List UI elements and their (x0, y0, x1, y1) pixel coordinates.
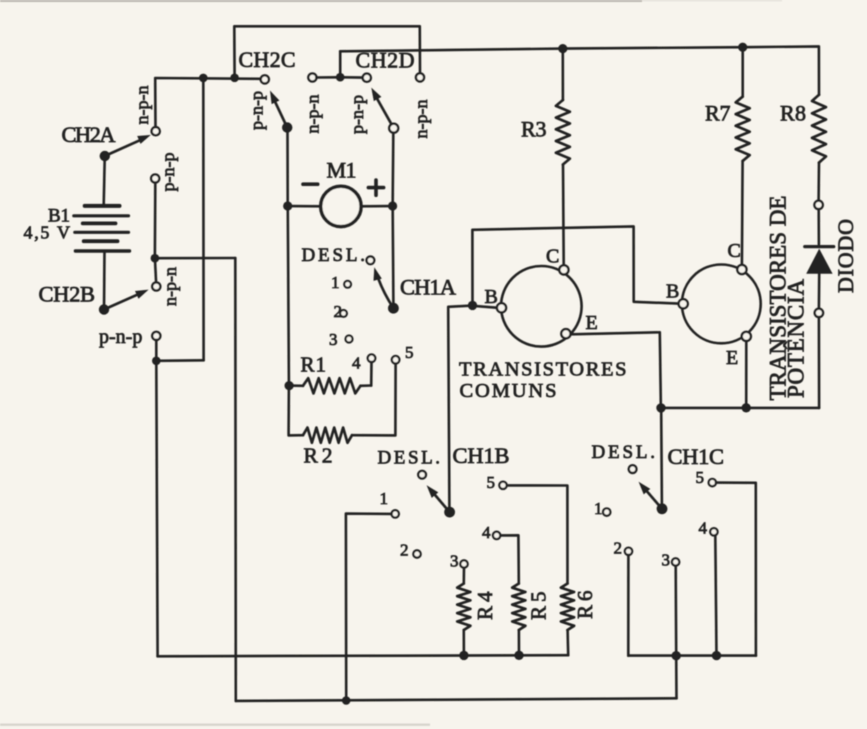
svg-text:4: 4 (699, 519, 708, 538)
pin B comuns (497, 303, 506, 312)
wire CH2D feed up to top bus (339, 51, 342, 77)
svg-text:E: E (586, 312, 598, 334)
wire bus N vertical x235 (234, 258, 237, 701)
switch CH1B pivot (444, 507, 455, 518)
svg-text:1: 1 (380, 489, 389, 508)
label 2 CH1C (614, 539, 623, 558)
wire E bus to CH1C pivot (660, 412, 663, 504)
label 5 CH1C (696, 468, 705, 487)
svg-text:3: 3 (329, 330, 338, 349)
svg-text:5: 5 (405, 343, 414, 362)
node R1 left (285, 381, 294, 390)
svg-text:CH2A: CH2A (62, 122, 117, 147)
switch CH1C contact 4 (710, 528, 717, 535)
switch CH1B arm (427, 485, 450, 512)
svg-text:3: 3 (662, 551, 671, 570)
battery B1 (74, 206, 130, 251)
switch CH2D n-p-n contact left (308, 73, 316, 81)
pin C potencia (737, 265, 746, 274)
node meter plus (388, 201, 397, 210)
svg-text:R5: R5 (527, 592, 551, 621)
label CH2D (356, 48, 415, 73)
svg-text:R6: R6 (573, 591, 597, 620)
switch CH2A p-n-p contact (151, 174, 159, 182)
resistor R1 (289, 378, 371, 393)
switch CH1C pivot (657, 503, 668, 514)
svg-text:R7: R7 (705, 101, 731, 126)
label 4 CH1A (352, 354, 361, 373)
svg-text:3: 3 (450, 551, 459, 570)
switch CH1B contact 3 (460, 560, 467, 567)
switch CH2C arm (270, 91, 287, 128)
resistor R7 (736, 47, 750, 264)
switch CH1B contact 2 (413, 550, 420, 557)
label 3 CH1A (329, 330, 338, 349)
label C potencia (728, 240, 741, 262)
svg-text:C: C (728, 240, 741, 262)
wire contact5 to R6 (507, 485, 568, 583)
wire bottom bus y701 (236, 698, 677, 701)
battery B1 lead top wire (104, 159, 105, 206)
wire diode top lead (817, 209, 820, 244)
switch CH2B n-p-n contact (152, 282, 160, 290)
switch CH1A pivot (388, 303, 399, 314)
switch CH2D n-p-n contact right (416, 73, 424, 81)
label B1 (48, 205, 70, 226)
wire contact3 CH1C to bus (674, 566, 677, 656)
switch CH1B contact 5 (499, 482, 506, 489)
svg-text:n-p-n: n-p-n (160, 267, 180, 306)
transistor socket comuns circle (501, 266, 582, 347)
label E comuns (586, 312, 598, 334)
wire meter column to R2 (289, 386, 303, 436)
node E bus right-transistor (742, 403, 751, 412)
wire main top bus (340, 46, 819, 94)
switch CH1B contact 4 (493, 532, 500, 539)
wire CH2B pnp contact to junction (155, 340, 158, 356)
diode anode triangle (806, 249, 832, 274)
wire CH2D pivot down to meter plus (391, 133, 394, 202)
switch CH1A DESL contact (367, 256, 375, 264)
svg-text:COMUNS: COMUNS (460, 380, 557, 402)
wire R1 to contact 4 (370, 362, 373, 385)
label 5 CH1A (405, 343, 414, 362)
label R8 (780, 101, 806, 126)
resistor R6 (561, 584, 574, 656)
label p-n-p CH2C (246, 91, 266, 130)
switch CH1C contact 1 (603, 508, 610, 515)
wire contact5 CH1C to bus (716, 483, 756, 656)
wire junction to CH2D pnp (344, 76, 363, 79)
label DIODO (833, 219, 858, 293)
wire bottom bus left y656 (158, 655, 569, 656)
label 3 CH1B (450, 551, 459, 570)
wire contact4 CH1C to bus (715, 535, 716, 655)
transistor socket potencia circle (682, 265, 761, 344)
svg-text:B: B (666, 281, 679, 303)
label E potencia (726, 347, 738, 369)
label CH1B (453, 443, 510, 468)
node junction CH2D feed (336, 73, 345, 82)
svg-text:CH1B: CH1B (453, 443, 510, 468)
label CH2B (39, 281, 96, 306)
node junction above CH2B npn (151, 254, 160, 263)
label 4 CH1B (482, 523, 491, 542)
switch CH2C pivot (282, 122, 292, 132)
battery B1 lead bottom wire (103, 251, 106, 310)
resistor R2 (303, 428, 352, 443)
node meter minus (283, 201, 292, 210)
label 2 CH1A (334, 302, 343, 321)
wire E potencia down (745, 341, 748, 403)
switch CH1C DESL contact (629, 465, 637, 473)
svg-text:p-n-p: p-n-p (246, 91, 266, 130)
wire vertical x203 (top row to pnp net) (202, 78, 205, 360)
node B junction left (468, 301, 477, 310)
wire E bus horizontal (661, 407, 819, 410)
switch CH2D arm (371, 88, 393, 129)
label 1 CH1A (331, 273, 340, 292)
switch CH2A n-p-n contact (152, 127, 160, 135)
switch CH1C contact 3 (672, 558, 679, 565)
label R7 (705, 101, 731, 126)
label 2 CH1B (400, 541, 409, 560)
wire pnp junction to x203 riser (156, 359, 203, 362)
node junction contact4 bus (712, 651, 721, 660)
switch CH2D p-n-p contact (363, 74, 371, 82)
svg-text:DESL.: DESL. (592, 442, 656, 463)
label TRANSISTORES (459, 359, 627, 381)
svg-text:E: E (726, 347, 738, 369)
svg-text:p-n-p: p-n-p (99, 326, 142, 348)
svg-text:CH2C: CH2C (239, 47, 296, 72)
node R3 top (558, 44, 567, 53)
wire CH2C pivot down to meter minus (286, 132, 289, 202)
svg-text:5: 5 (696, 468, 705, 487)
wire bottom bus right (628, 654, 756, 657)
node junction CH1B pos1 bottom (342, 696, 351, 705)
wire junction right to bus N (155, 257, 235, 260)
label DESL CH1C (592, 442, 656, 463)
wire B junction to B contact (473, 306, 497, 308)
label R5 (527, 592, 551, 621)
node R7 top (738, 43, 747, 52)
terminal circle diode bottom (815, 309, 823, 317)
label C comuns (546, 245, 559, 267)
wire junction to CH2B npn contact (155, 258, 156, 282)
pin E comuns (561, 329, 570, 338)
node junction x234 on top row (230, 74, 239, 83)
resistor R4 (457, 584, 470, 656)
resistor R5 (512, 584, 525, 656)
switch CH1A contact 5 (392, 356, 400, 364)
wire diode to E bus (818, 317, 821, 408)
svg-text:2: 2 (614, 539, 623, 558)
scan edge bottom (0, 724, 430, 726)
svg-text:n-p-n: n-p-n (132, 86, 152, 125)
scan edge top (0, 0, 782, 2)
switch CH1A arm (374, 267, 394, 308)
wire E comuns to E bus (571, 332, 661, 403)
svg-text:R2: R2 (304, 443, 333, 467)
switch CH2D pivot contact (389, 124, 398, 133)
wire B junction to CH1B (448, 306, 472, 508)
pin C comuns (559, 265, 568, 274)
svg-text:DESL.: DESL. (378, 447, 441, 468)
wire R2 to contact 5 (352, 364, 396, 436)
label 5 CH1B (487, 473, 496, 492)
label p-n-p CH2A (158, 153, 178, 192)
label 4,5 V (24, 223, 71, 243)
label n-p-n CH2D left (302, 95, 322, 134)
svg-text:5: 5 (487, 473, 496, 492)
switch CH1A contact 4 (368, 354, 376, 362)
svg-text:DIODO: DIODO (833, 219, 858, 293)
svg-text:n-p-n: n-p-n (302, 95, 322, 134)
wire meter minus column down (288, 210, 289, 381)
label B potencia (666, 281, 679, 303)
svg-text:CH1A: CH1A (400, 275, 457, 300)
label CH1C (668, 444, 725, 469)
node junction below pnp (152, 357, 161, 366)
svg-text:4: 4 (352, 354, 361, 373)
label B comuns (485, 286, 498, 308)
switch CH1A contact 1 (344, 281, 351, 288)
meter M1 (321, 186, 361, 226)
wire B-bus box around left transistor (472, 226, 678, 303)
wire meter plus lead (361, 205, 388, 208)
wire contact1 to bottom bus (346, 514, 392, 701)
label minus sign (303, 182, 318, 186)
switch CH1A contact 3 (346, 336, 353, 343)
wire meter plus column down (391, 210, 394, 303)
svg-text:R8: R8 (780, 101, 806, 126)
label p-n-p CH2B (99, 326, 142, 348)
svg-text:C: C (546, 245, 559, 267)
wire loop to CH2D npn contact (234, 26, 420, 78)
switch CH2A pivot (100, 151, 110, 161)
label 3 CH1C (662, 551, 671, 570)
label 1 CH1B (380, 489, 389, 508)
node junction contact3 bus (672, 651, 681, 660)
switch CH1B DESL contact (418, 471, 426, 479)
node junction x203 on top row (199, 74, 208, 83)
resistor R8 (812, 95, 826, 201)
label DESL CH1B (378, 447, 441, 468)
label p-n-p CH2D (347, 95, 367, 134)
node E bus left (656, 403, 665, 412)
switch CH2B p-n-p contact (152, 332, 160, 340)
label n-p-n CH2D right (411, 100, 431, 139)
resistor R3 (556, 49, 570, 265)
label POTENCIA (784, 279, 809, 398)
node R4 bottom (459, 651, 468, 660)
label M1 (327, 158, 357, 183)
label R1 (301, 353, 327, 377)
svg-text:M1: M1 (327, 158, 357, 183)
svg-text:p-n-p: p-n-p (347, 95, 367, 134)
node R5 bottom (514, 651, 523, 660)
svg-text:4: 4 (482, 523, 491, 542)
wire diode bottom lead (818, 274, 821, 309)
wire contact4 to R5 (500, 535, 518, 583)
svg-text:p-n-p: p-n-p (158, 153, 178, 192)
svg-text:R3: R3 (521, 117, 547, 142)
svg-text:DESL.: DESL. (302, 245, 366, 266)
switch CH2B arm (104, 290, 149, 310)
switch CH2C contact (261, 75, 269, 83)
label 4 CH1C (699, 519, 708, 538)
label CH1A (400, 275, 457, 300)
label R3 (521, 117, 547, 142)
label COMUNS (460, 380, 557, 402)
pin B potencia (679, 299, 688, 308)
svg-text:R4: R4 (473, 591, 497, 620)
wire CH2A npn contact to bus row (155, 78, 260, 127)
label R4 (473, 591, 497, 620)
label plus sign (368, 180, 383, 195)
wire contact3 to R4 (462, 568, 465, 584)
label R6 (573, 591, 597, 620)
label DESL CH1A (302, 245, 366, 266)
svg-text:CH1C: CH1C (668, 444, 725, 469)
diode cathode bar (805, 245, 834, 248)
wire CH2A pnp contact down (154, 183, 157, 254)
svg-text:1: 1 (331, 273, 340, 292)
switch CH1C arm (639, 482, 662, 509)
pin E potencia (742, 332, 751, 341)
switch CH1A contact 2 (340, 310, 347, 317)
svg-text:R1: R1 (301, 353, 327, 377)
switch CH1C contact 5 (709, 479, 716, 486)
switch CH2A arm (105, 135, 151, 156)
svg-text:CH2B: CH2B (39, 281, 96, 306)
label 1 CH1C (594, 499, 603, 518)
svg-text:n-p-n: n-p-n (411, 100, 431, 139)
svg-text:POTÊNCIA: POTÊNCIA (784, 279, 809, 398)
label CH2C (239, 47, 296, 72)
svg-text:B: B (485, 286, 498, 308)
label n-p-n CH2B (160, 267, 180, 306)
label CH2A (62, 122, 117, 147)
terminal circle diode top (814, 201, 822, 209)
svg-text:1: 1 (594, 499, 603, 518)
wire meter minus lead (292, 205, 321, 208)
wire CH2D npn to junction (316, 76, 336, 79)
svg-text:4,5 V: 4,5 V (24, 223, 71, 243)
wire contact2 CH1C to bus (627, 555, 630, 656)
svg-text:TRANSISTORES: TRANSISTORES (459, 359, 627, 381)
switch CH2B pivot (99, 304, 109, 314)
label R2 (304, 443, 333, 467)
wire riser to CH1C resistor bus (675, 656, 678, 699)
switch CH1B contact 1 (392, 510, 399, 517)
label n-p-n CH2A (132, 86, 152, 125)
svg-text:2: 2 (400, 541, 409, 560)
switch CH1C contact 2 (625, 548, 632, 555)
label TRANSISTORES DE (766, 196, 791, 401)
wire left column down (156, 361, 157, 657)
